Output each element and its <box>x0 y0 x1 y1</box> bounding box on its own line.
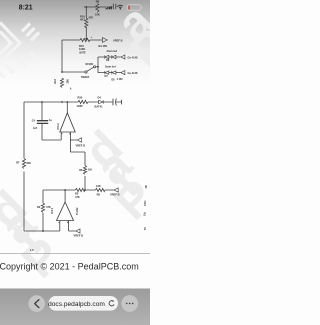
resistor R30 chain y102 <box>78 100 88 103</box>
wire feedback to R6 <box>70 152 85 190</box>
wire stage2 left leg x43 <box>42 190 44 231</box>
svg-text:5V: 5V <box>144 227 147 230</box>
svg-text:100n: 100n <box>144 200 147 206</box>
page bottom separator <box>0 253 150 255</box>
svg-text:D7: D7 <box>105 74 109 78</box>
wire bottom rail <box>24 230 60 232</box>
wire op1 output <box>66 102 68 113</box>
svg-text:1M: 1M <box>88 168 92 172</box>
svg-text:BAT41: BAT41 <box>95 104 104 108</box>
node rail x62 junction <box>61 101 63 103</box>
svg-text:R9: R9 <box>97 192 101 196</box>
svg-text:VREF B: VREF B <box>76 144 86 148</box>
svg-text:1.0: 1.0 <box>30 248 34 252</box>
net flag VREF row y40 <box>102 38 107 43</box>
wire op2 stub left <box>59 221 61 232</box>
svg-text:47K: 47K <box>88 16 93 20</box>
node R6 bottom junction <box>84 189 86 191</box>
svg-text:VREF B: VREF B <box>110 193 120 197</box>
wire zigzag row y40 <box>62 39 102 41</box>
svg-text:R8: R8 <box>96 0 100 4</box>
svg-text:R2: R2 <box>37 205 41 209</box>
watermark: chevron logo top-left <box>0 23 39 79</box>
svg-text:IC1.1: IC1.1 <box>50 207 54 214</box>
svg-text:R6: R6 <box>79 168 83 172</box>
op-amp U1B pin marks <box>58 222 68 224</box>
right margin vertical doc text <box>144 185 148 230</box>
status bar signal bars <box>106 6 112 9</box>
resistor horizontal y40 <box>80 38 90 41</box>
node cap branch junction <box>41 101 43 103</box>
wire op2 stub right <box>69 221 76 232</box>
svg-text:3mm led: 3mm led <box>105 65 116 69</box>
svg-text:TL022: TL022 <box>75 207 79 215</box>
wire op1 input stub left <box>60 132 62 140</box>
wire op2 output <box>64 190 66 202</box>
resistor R8 top vertical <box>96 4 99 13</box>
node op1 output junction <box>66 101 68 103</box>
svg-text:3mm led: 3mm led <box>107 49 118 53</box>
resistor R7 on left rail <box>22 159 25 169</box>
resistor R16 vertical on rail x86 <box>85 18 88 28</box>
svg-text:R7: R7 <box>16 161 20 165</box>
svg-text:4 48V: 4 48V <box>117 78 123 81</box>
wire stage2 top row <box>43 189 114 191</box>
svg-text:R30: R30 <box>78 95 83 99</box>
node top rail junction <box>85 6 87 8</box>
net flag op1 feedback <box>77 138 81 142</box>
page background <box>0 0 150 325</box>
svg-text:docs.pedalpcb.com: docs.pedalpcb.com <box>48 301 105 308</box>
diode D4 chain y102 <box>99 100 104 104</box>
svg-text:47K: 47K <box>46 205 51 209</box>
svg-text:4u7: 4u7 <box>33 127 38 130</box>
resistor R9 stage2 row <box>96 188 106 191</box>
wire diode row 1 <box>98 56 121 58</box>
node switch feed junction <box>61 71 63 73</box>
svg-text:NC/NO: NC/NO <box>86 63 94 66</box>
wire op1 stub right to feedback <box>70 132 77 152</box>
wire cap branch x42 <box>42 102 61 140</box>
wire left rail x24 <box>23 102 25 231</box>
op-amp U1A pin marks <box>61 133 71 135</box>
svg-text:IC1.2: IC1.2 <box>56 123 60 130</box>
browser bottom bar <box>0 289 150 325</box>
net flag op2 bottom <box>76 229 80 233</box>
wire diode ladder vertical <box>97 57 99 73</box>
svg-text:D4: D4 <box>98 96 102 100</box>
resistor R13 on rail x62 <box>60 78 63 87</box>
svg-text:Ge 4148: Ge 4148 <box>128 56 139 60</box>
svg-text:10K: 10K <box>95 12 100 16</box>
wire top rail <box>84 6 112 8</box>
svg-text:Ge 4148: Ge 4148 <box>128 71 139 75</box>
svg-text:VREF B: VREF B <box>113 39 123 43</box>
svg-text:SW#1B: SW#1B <box>81 76 90 79</box>
node bottom rail junction <box>42 230 44 232</box>
svg-text:R13: R13 <box>54 78 57 83</box>
svg-text:4K7: 4K7 <box>80 18 85 22</box>
svg-text:Copyright © 2021 - PedalPCB.co: Copyright © 2021 - PedalPCB.com <box>0 262 139 272</box>
reload icon <box>109 301 114 306</box>
svg-text:33K: 33K <box>26 161 31 165</box>
node rail/divider junction <box>85 38 87 40</box>
wire diode row 2 <box>98 72 121 74</box>
node diode ladder junction <box>97 66 99 68</box>
diode row1 b <box>112 55 116 58</box>
resistor R5 stage2 row <box>76 188 86 191</box>
status bar / page top gradient <box>0 0 150 85</box>
status bar wifi <box>118 5 123 8</box>
address pill <box>49 296 119 311</box>
back button <box>28 295 45 312</box>
net flag stage2 row <box>114 188 118 192</box>
wire switch feed <box>62 71 85 73</box>
diode D7 row2 a <box>105 71 109 74</box>
node op2 output junction <box>64 189 66 191</box>
wire rail x62 <box>61 40 63 72</box>
svg-text:47K: 47K <box>75 195 80 199</box>
svg-text:118R: 118R <box>77 104 83 108</box>
svg-text:VREF B: VREF B <box>74 233 84 237</box>
wire mid chain y102 <box>24 101 122 103</box>
svg-text:D6: D6 <box>106 58 110 62</box>
svg-text:10u: 10u <box>144 211 147 216</box>
svg-text:8:21: 8:21 <box>19 5 33 12</box>
switch SW1 <box>85 66 98 73</box>
svg-text:100K: 100K <box>79 47 85 51</box>
capacitor series top right <box>112 4 118 9</box>
op-amp U1A <box>60 113 75 132</box>
resistor R6 on x85 <box>83 166 86 175</box>
svg-text:25K: 25K <box>67 79 70 84</box>
wire rail x86 upper <box>85 7 87 40</box>
op-amp U1B <box>57 202 74 221</box>
svg-text:10K: 10K <box>96 184 101 188</box>
schematic tiny labels <box>16 0 138 252</box>
diode row2 b <box>112 71 116 74</box>
svg-text:B4 48V: B4 48V <box>99 44 108 48</box>
svg-text:A: A <box>70 87 72 90</box>
svg-text:3B: 3B <box>145 185 148 188</box>
resistor R2 stage2 left <box>41 203 44 212</box>
diode D6 row1 a <box>105 55 109 58</box>
capacitor C on x42 branch <box>37 121 48 124</box>
net flag row1 diodes <box>121 55 125 59</box>
svg-text:BATE: BATE <box>80 51 87 54</box>
status bar battery <box>127 5 143 11</box>
more button <box>121 295 138 312</box>
svg-text:R15: R15 <box>79 44 84 48</box>
net flag row2 diodes <box>121 71 125 75</box>
watermark: diagonal PedalPCB letters <box>0 0 180 288</box>
capacitor chain y102 <box>113 99 122 106</box>
